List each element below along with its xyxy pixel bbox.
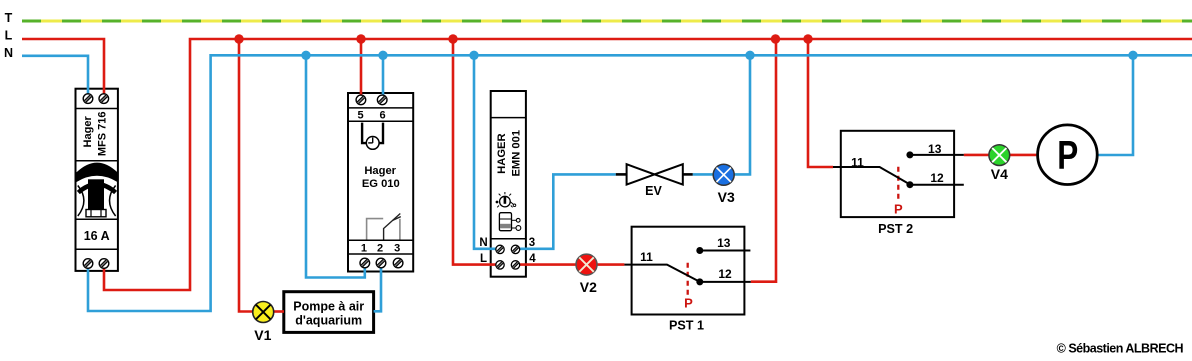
svg-text:12: 12 xyxy=(930,171,944,185)
svg-text:L: L xyxy=(480,253,487,265)
svg-text:EV: EV xyxy=(645,184,662,198)
svg-text:L: L xyxy=(5,29,13,43)
svg-text:V1: V1 xyxy=(254,327,271,343)
svg-text:3: 3 xyxy=(529,237,535,249)
svg-text:V2: V2 xyxy=(580,279,597,295)
svg-text:1: 1 xyxy=(361,243,367,255)
svg-text:HAGER: HAGER xyxy=(496,133,508,173)
svg-text:12: 12 xyxy=(718,267,732,281)
svg-text:EMN 001: EMN 001 xyxy=(511,130,523,177)
svg-text:P: P xyxy=(684,296,693,311)
svg-text:d'aquarium: d'aquarium xyxy=(295,314,362,328)
svg-text:2: 2 xyxy=(377,243,383,255)
svg-text:11: 11 xyxy=(640,250,653,264)
svg-text:Pompe à air: Pompe à air xyxy=(293,299,364,313)
svg-text:© Sébastien ALBRECH: © Sébastien ALBRECH xyxy=(1057,342,1184,356)
svg-text:5: 5 xyxy=(357,110,363,122)
svg-text:V3: V3 xyxy=(718,189,735,205)
svg-text:4: 4 xyxy=(529,253,536,265)
svg-text:MFS 716: MFS 716 xyxy=(97,111,109,156)
svg-text:EG 010: EG 010 xyxy=(362,178,400,190)
svg-text:6: 6 xyxy=(379,110,385,122)
svg-text:P: P xyxy=(1057,134,1078,178)
svg-text:V4: V4 xyxy=(991,166,1008,182)
svg-text:13: 13 xyxy=(717,236,731,250)
svg-text:PST 1: PST 1 xyxy=(669,318,704,332)
svg-text:Hager: Hager xyxy=(82,116,94,148)
svg-text:PST 2: PST 2 xyxy=(878,222,913,236)
svg-text:T: T xyxy=(5,11,13,25)
svg-text:N: N xyxy=(479,237,487,249)
svg-text:P: P xyxy=(894,202,903,217)
svg-text:N: N xyxy=(4,46,13,60)
svg-text:Hager: Hager xyxy=(364,165,396,177)
svg-text:16 A: 16 A xyxy=(84,229,110,243)
svg-text:3: 3 xyxy=(394,243,400,255)
